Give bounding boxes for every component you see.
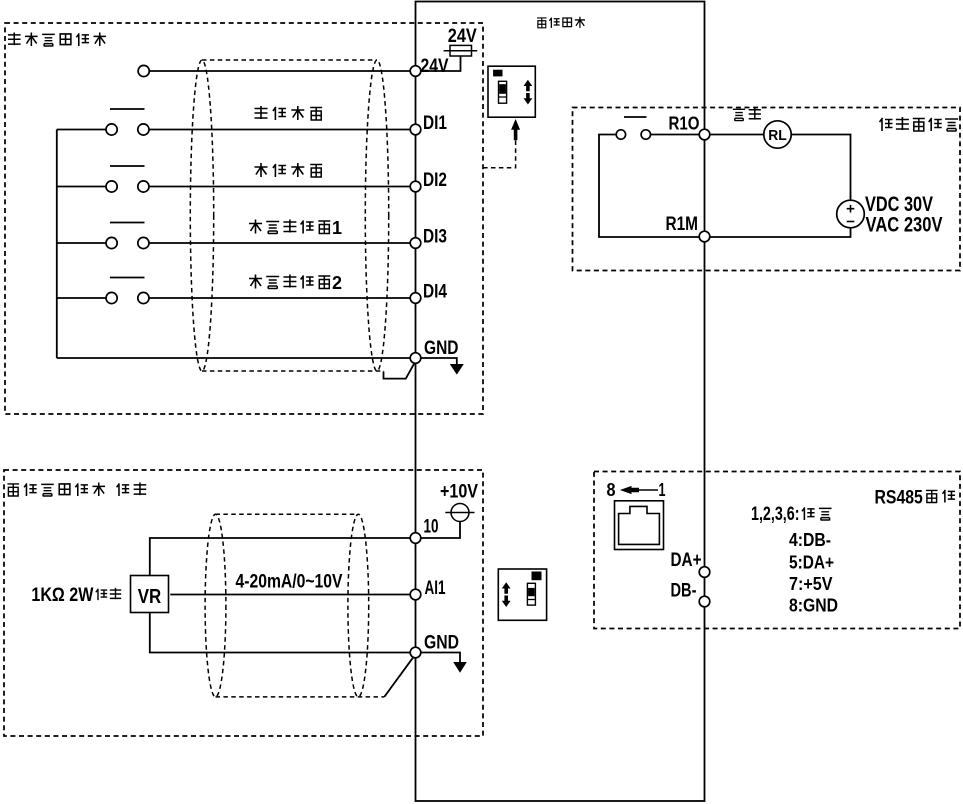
DIP SW-AI up arrow bbox=[502, 582, 511, 594]
terminal R1O bbox=[699, 129, 710, 140]
wire relay contact left leg bbox=[599, 135, 699, 238]
svg-text:RL: RL bbox=[768, 127, 787, 144]
wire bus to S3 (multi-speed 1) bbox=[57, 242, 106, 244]
cable shield ellipse left (lower) bbox=[205, 514, 226, 697]
svg-text:5:DA+: 5:DA+ bbox=[789, 552, 834, 572]
svg-text:VAC 230V: VAC 230V bbox=[866, 212, 944, 236]
RJ45 pin arrow bbox=[634, 489, 658, 491]
cable shield ellipse left (upper) bbox=[190, 60, 213, 371]
power source (relay load supply) bbox=[837, 200, 865, 228]
fuse 24V bbox=[450, 45, 472, 56]
open terminal (24V feed) bbox=[138, 65, 149, 76]
terminal R1M bbox=[699, 231, 710, 242]
label: switch signal input bbox=[8, 32, 21, 45]
switch S2 (reverse) actuator bar bbox=[110, 165, 145, 167]
wire R1O to lamp RL bbox=[710, 134, 764, 136]
wire S2 (reverse) to DI2 bbox=[149, 186, 410, 188]
ground arrow (upper) bbox=[450, 364, 464, 375]
svg-text:GND: GND bbox=[424, 337, 459, 359]
DIP SW-AI down arrow bbox=[502, 596, 511, 608]
cable shield ellipse right (lower) bbox=[348, 514, 369, 697]
dashed pointer wire SW-DI bbox=[482, 141, 516, 168]
cable shield bottom line (upper) bbox=[202, 370, 384, 372]
switch S4 (multi-speed 2) actuator bar bbox=[110, 277, 145, 279]
wire bus to GND bbox=[57, 357, 411, 359]
label: relay output bbox=[880, 118, 893, 131]
svg-text:8: 8 bbox=[607, 479, 616, 500]
relay contact bar bbox=[624, 116, 647, 118]
terminal DB- bbox=[699, 596, 710, 607]
wire VR wiper to AI1 bbox=[170, 594, 410, 596]
terminal AI1 (analog) bbox=[410, 589, 421, 600]
terminal 24V bbox=[410, 66, 421, 77]
wire lamp RL to source bbox=[791, 135, 850, 201]
control circuit box bbox=[416, 2, 705, 802]
DIP SW-AI slide switch bbox=[527, 583, 535, 605]
switch S1 (forward) contacts bbox=[106, 124, 117, 135]
wire terminal 10 to VR top bbox=[150, 538, 411, 576]
svg-text:1KΩ 2W: 1KΩ 2W bbox=[31, 585, 93, 606]
analog signal input/output box bbox=[4, 470, 483, 736]
switch S2 (reverse) contacts bbox=[106, 181, 117, 192]
cable shield ellipse right (upper) bbox=[365, 60, 388, 371]
svg-text:4:DB-: 4:DB- bbox=[789, 530, 831, 550]
svg-text:DI2: DI2 bbox=[423, 169, 447, 191]
pointer arrow below SW-DI bbox=[511, 119, 520, 140]
wire GND to ground arrow (upper) bbox=[421, 358, 457, 364]
terminal 10 (analog) bbox=[410, 533, 421, 544]
label: red lamp bbox=[733, 109, 745, 121]
svg-text:GND: GND bbox=[424, 632, 459, 654]
svg-text:1: 1 bbox=[332, 218, 342, 238]
svg-text:24V: 24V bbox=[421, 55, 449, 77]
wire VR bottom to GND bbox=[150, 613, 411, 653]
left bus wire bbox=[56, 130, 58, 359]
switch S4 (multi-speed 2) contacts bbox=[106, 292, 117, 303]
switch S3 (multi-speed 1) actuator bar bbox=[110, 222, 145, 224]
DIP switch icon SW-DI (box) bbox=[488, 66, 535, 117]
svg-text:DI4: DI4 bbox=[423, 281, 447, 303]
svg-text:VR: VR bbox=[138, 585, 162, 608]
terminal DI1 bbox=[410, 124, 421, 135]
label: analog signal input / output bbox=[7, 484, 19, 496]
cable shield top line (lower) bbox=[216, 513, 359, 515]
svg-text:1: 1 bbox=[659, 479, 666, 500]
wire bus to S4 (multi-speed 2) bbox=[57, 297, 106, 299]
label: control circuit bbox=[537, 18, 546, 28]
cable shield top line (upper) bbox=[202, 59, 377, 61]
DIP switch icon SW-AI (box) bbox=[498, 569, 546, 620]
terminal DI2 bbox=[410, 181, 421, 192]
switch signal input box bbox=[5, 23, 483, 414]
wire relay contact to R1O bbox=[651, 134, 700, 136]
lamp RL bbox=[764, 121, 791, 148]
svg-text:R1M: R1M bbox=[666, 214, 699, 235]
terminal GND bbox=[410, 353, 421, 364]
svg-text:DB-: DB- bbox=[671, 580, 697, 602]
svg-text:+10V: +10V bbox=[440, 481, 478, 503]
terminal DA+ bbox=[699, 567, 710, 578]
ground arrow (lower) bbox=[453, 662, 467, 673]
shield drain hook to GND (upper) bbox=[384, 363, 415, 378]
DIP SW-AI corner square bbox=[532, 572, 541, 580]
svg-text:AI1: AI1 bbox=[425, 577, 446, 599]
RJ45 jack outer bbox=[615, 501, 664, 550]
RJ45 arrowhead bbox=[620, 486, 639, 494]
label: forward run command bbox=[255, 106, 268, 119]
DIP SW-DI down arrow bbox=[524, 93, 533, 105]
wire GND to ground arrow (lower) bbox=[421, 653, 460, 663]
wire bus to S2 (reverse) bbox=[57, 186, 106, 188]
terminal DI3 bbox=[410, 238, 421, 249]
label: reverse run command bbox=[255, 163, 268, 177]
shield drain diagonal to GND (lower) bbox=[384, 657, 413, 697]
wire fuse to 24V terminal bbox=[421, 56, 461, 71]
wire S4 (multi-speed 2) to DI4 bbox=[149, 297, 410, 299]
terminal GND (analog) bbox=[410, 647, 421, 658]
svg-text:8:GND: 8:GND bbox=[789, 596, 838, 616]
cable shield bottom line (lower) bbox=[216, 696, 385, 698]
svg-text:DI3: DI3 bbox=[423, 226, 447, 248]
svg-text:24V: 24V bbox=[448, 26, 477, 47]
wire bus to S1 (forward) bbox=[57, 129, 106, 131]
svg-text:2: 2 bbox=[332, 273, 342, 293]
RS485 communication box bbox=[594, 472, 960, 629]
potentiometer VR box bbox=[131, 576, 169, 613]
wire +10V to terminal 10 bbox=[421, 522, 460, 539]
source - sign bbox=[847, 221, 855, 223]
wire 24V feed bbox=[149, 70, 410, 72]
wire S1 (forward) to DI1 bbox=[149, 129, 410, 131]
svg-text:RS485: RS485 bbox=[875, 487, 923, 509]
label: multi-speed command 1 bbox=[249, 220, 262, 234]
relay contact circles bbox=[616, 130, 625, 139]
relay output box bbox=[573, 108, 961, 271]
svg-text:R1O: R1O bbox=[669, 113, 700, 134]
DIP SW-DI slide switch bbox=[499, 81, 507, 103]
svg-text:10: 10 bbox=[424, 516, 439, 538]
RJ45 jack inner bbox=[619, 506, 660, 544]
svg-text:DA+: DA+ bbox=[671, 549, 702, 571]
svg-text:7:+5V: 7:+5V bbox=[789, 574, 833, 594]
switch S3 (multi-speed 1) contacts bbox=[106, 237, 117, 248]
wire source to R1M bbox=[710, 228, 851, 237]
svg-text:4-20mA/0~10V: 4-20mA/0~10V bbox=[236, 571, 343, 593]
DIP SW-DI up arrow bbox=[524, 80, 533, 92]
+10V supply symbol bbox=[451, 504, 469, 522]
switch S1 (forward) actuator bar bbox=[110, 108, 145, 110]
svg-text:1,2,3,6:: 1,2,3,6: bbox=[751, 504, 800, 525]
terminal DI4 bbox=[410, 293, 421, 304]
DIP SW-DI corner square bbox=[494, 70, 502, 76]
source + sign bbox=[847, 205, 855, 213]
label: multi-speed command 2 bbox=[249, 275, 262, 289]
wire S3 (multi-speed 1) to DI3 bbox=[149, 242, 410, 244]
svg-text:DI1: DI1 bbox=[423, 112, 447, 134]
